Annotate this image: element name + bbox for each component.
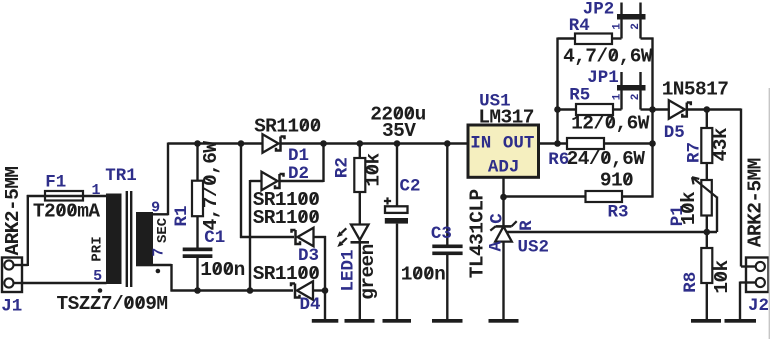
label D2 [288, 164, 309, 184]
jumper JP2 [617, 3, 646, 39]
label JP2 [583, 0, 615, 20]
svg-text:1: 1 [91, 182, 100, 199]
wire [641, 108, 653, 110]
svg-text:C2: C2 [399, 177, 420, 197]
svg-text:10k: 10k [362, 152, 384, 186]
wire AC1 drop [240, 143, 294, 239]
wire [396, 144, 398, 207]
wire pin7 [153, 264, 293, 292]
resistor R8 [701, 248, 712, 283]
wire AC1 top rail [168, 142, 263, 144]
label R6 [548, 150, 569, 170]
resistor R1 [192, 144, 203, 217]
label R5 [569, 86, 590, 106]
text PRI [89, 236, 105, 261]
svg-text:2: 2 [630, 23, 642, 30]
svg-text:C3: C3 [431, 224, 452, 244]
jumper JP1 [617, 72, 646, 110]
pin 1 of JP1 [611, 93, 623, 100]
svg-text:J1: J1 [1, 297, 22, 317]
wire pin9 [153, 143, 168, 216]
wire ref [507, 231, 717, 233]
svg-text:C: C [487, 213, 507, 224]
node [649, 106, 656, 113]
svg-text:JP2: JP2 [583, 0, 615, 20]
svg-text:R5: R5 [569, 86, 590, 106]
node C3 top [444, 140, 451, 147]
capacitor C1 [183, 248, 213, 259]
transformer TR1 secondary winding [136, 212, 153, 266]
svg-text:R3: R3 [607, 203, 628, 223]
node ADJ [500, 194, 507, 201]
svg-text:43k: 43k [710, 127, 732, 161]
resistor R7 [701, 110, 712, 164]
pin IN [470, 134, 491, 154]
svg-text:100n: 100n [401, 264, 445, 286]
resistor R2 [354, 144, 365, 193]
value 10k of P1 [678, 191, 700, 225]
node C2 top [394, 140, 401, 147]
svg-text:1: 1 [611, 93, 623, 100]
node [554, 106, 561, 113]
value ARK2-5MM of J1 [2, 167, 24, 256]
svg-text:100n: 100n [200, 259, 244, 281]
label TR1 [105, 166, 137, 186]
value 2200u 35V [370, 104, 426, 143]
phase dot secondary [156, 269, 161, 274]
svg-text:J2: J2 [748, 296, 769, 316]
svg-text:SR1100: SR1100 [253, 207, 320, 229]
diode D3 [292, 228, 327, 247]
wire [359, 240, 361, 319]
wire [446, 144, 448, 245]
value 10k of R8 [711, 259, 733, 293]
capacitor C2 [384, 197, 408, 223]
svg-text:SEC: SEC [155, 217, 171, 243]
svg-text:OUT: OUT [503, 134, 535, 154]
value SR1100 of D2 [253, 189, 320, 211]
diode D4 [291, 281, 326, 300]
svg-text:LM317: LM317 [478, 107, 534, 129]
ground C2 [383, 319, 412, 323]
svg-text:35V: 35V [382, 120, 416, 142]
pin ADJ [488, 158, 520, 178]
wire output drop [741, 109, 746, 267]
node bridge AC1 [238, 140, 245, 147]
pin OUT [503, 134, 535, 154]
svg-text:10k: 10k [711, 259, 733, 293]
svg-text:US2: US2 [517, 238, 549, 258]
node [247, 287, 254, 294]
label R3 [607, 203, 628, 223]
label LED1 [339, 249, 359, 291]
svg-text:JP1: JP1 [587, 68, 619, 88]
wire [359, 192, 361, 225]
value 1N5817 [662, 79, 729, 101]
text SEC [155, 217, 171, 243]
value 10k of R2 [362, 152, 384, 186]
potentiometer P1 [692, 177, 717, 232]
wire [196, 216, 198, 247]
node D2 out [320, 140, 327, 147]
wire [558, 37, 576, 39]
svg-text:24/0,6W: 24/0,6W [567, 148, 646, 170]
svg-text:12/0,6W: 12/0,6W [571, 113, 650, 135]
label J1 [1, 297, 22, 317]
transformer TR1 primary winding [106, 194, 122, 285]
wire [604, 142, 653, 144]
ground J2 [725, 319, 757, 323]
node [704, 106, 711, 113]
wire anode [502, 242, 504, 320]
svg-text:R7: R7 [684, 142, 704, 163]
diode D5 [669, 100, 691, 119]
connector J1 [2, 258, 22, 293]
svg-text:R: R [517, 220, 537, 231]
resistor R4 [575, 34, 612, 45]
label R2 [333, 157, 353, 178]
value 100n of C1 [200, 259, 244, 281]
svg-text:R8: R8 [681, 272, 701, 293]
node [649, 140, 656, 147]
svg-text:5: 5 [93, 268, 102, 285]
wire [22, 282, 107, 284]
pin 9 [151, 200, 160, 217]
label JP1 [587, 68, 619, 88]
wire [612, 37, 622, 39]
ground bridge [312, 319, 339, 323]
label C2 [399, 177, 420, 197]
value SR1100 of D1 [254, 115, 321, 137]
connector J2 [746, 258, 769, 293]
label R7 [684, 142, 704, 163]
value TL431CLP [466, 189, 488, 278]
resistor R3 [586, 191, 623, 202]
value 12/0,6W of R5 [571, 113, 650, 135]
svg-text:D5: D5 [664, 123, 685, 143]
value 910 [600, 170, 633, 192]
pin 7 [150, 248, 167, 257]
diode D2 [250, 172, 324, 191]
ground C3 [432, 319, 463, 323]
node [554, 140, 561, 147]
svg-text:1: 1 [611, 23, 623, 30]
svg-text:T200mA: T200mA [33, 201, 101, 223]
label R8 [681, 272, 701, 293]
wire [613, 108, 622, 110]
value ARK2-5MM of J2 [745, 158, 767, 247]
pin 1 [91, 182, 100, 199]
svg-text:R2: R2 [333, 157, 353, 178]
value 100n of C3 [401, 264, 445, 286]
pin 5 [93, 268, 102, 285]
svg-text:F1: F1 [45, 173, 66, 193]
value T200mA [33, 201, 101, 223]
pin 1 of JP2 [611, 23, 623, 30]
value 43k of R7 [710, 127, 732, 161]
svg-text:2: 2 [630, 94, 642, 101]
svg-text:C1: C1 [204, 228, 225, 248]
pin C [487, 213, 507, 224]
node R1 top [194, 140, 201, 147]
wire right rail [651, 38, 653, 198]
wire D3-D4-ground riser [324, 236, 326, 319]
ground US2 [489, 319, 519, 323]
node [194, 287, 201, 294]
wire [22, 195, 28, 266]
svg-text:ADJ: ADJ [488, 158, 520, 178]
wire OUT [539, 142, 568, 144]
wire DC+ top rail [281, 142, 468, 144]
svg-text:910: 910 [600, 170, 633, 192]
wire D2 drop [249, 180, 251, 292]
value LM317 [478, 107, 534, 129]
svg-text:ARK2-5MM: ARK2-5MM [2, 167, 24, 256]
value 4,7/0,6W of R1 [200, 141, 222, 231]
svg-text:ARK2-5MM: ARK2-5MM [745, 158, 767, 247]
pin 2 of JP1 [630, 94, 642, 101]
label F1 [45, 173, 66, 193]
transformer core [127, 191, 131, 287]
wire [27, 195, 107, 197]
wire [740, 282, 746, 320]
svg-text:PRI: PRI [89, 236, 105, 261]
pin R [517, 220, 537, 231]
pin A [486, 241, 506, 252]
regulator U1 LM317 [468, 125, 539, 177]
ground R8 [691, 319, 721, 323]
svg-text:R1: R1 [172, 205, 192, 226]
label C3 [431, 224, 452, 244]
wire [653, 108, 669, 110]
value SR1100 of D3 [253, 207, 320, 229]
wire [622, 195, 654, 197]
label R4 [569, 16, 590, 36]
node [704, 229, 711, 236]
node [322, 287, 329, 294]
node R2 top [357, 140, 364, 147]
svg-text:D4: D4 [299, 295, 320, 315]
wire [641, 37, 654, 39]
ground LED1 [345, 319, 375, 323]
svg-text:IN: IN [470, 134, 491, 154]
label US2 [517, 238, 549, 258]
label J2 [748, 296, 769, 316]
svg-text:4,7/0,6W: 4,7/0,6W [200, 141, 222, 231]
wire [558, 108, 577, 110]
wire left rail [556, 38, 558, 144]
phase dot primary [98, 288, 103, 293]
wire to R3 [504, 195, 586, 197]
label C1 [204, 228, 225, 248]
svg-text:LED1: LED1 [339, 249, 359, 291]
wire [706, 216, 708, 249]
diode D1 [263, 134, 285, 153]
label US1 [479, 92, 511, 112]
fuse F1 [45, 191, 83, 201]
wire [446, 255, 448, 319]
wire [706, 283, 708, 319]
wire ADJ [502, 177, 504, 225]
value SR1100 of D4 [253, 263, 320, 285]
label R1 [172, 205, 192, 226]
LED LED1 [337, 225, 369, 248]
wire [196, 258, 198, 291]
resistor R6 [567, 138, 604, 149]
label D1 [288, 146, 309, 166]
value TSZZ7/009M [56, 293, 167, 315]
value 4,7/0,6W of R4 [563, 46, 653, 68]
wire [396, 224, 398, 319]
label D4 [299, 295, 320, 315]
shunt regulator US2 TL431 [490, 221, 516, 241]
svg-text:1N5817: 1N5817 [662, 79, 729, 101]
wire [706, 163, 708, 180]
svg-text:4,7/0,6W: 4,7/0,6W [563, 46, 653, 68]
wire [686, 108, 741, 110]
label D5 [664, 123, 685, 143]
resistor R5 [576, 104, 613, 115]
label D3 [298, 246, 319, 266]
wire D2 riser [322, 144, 324, 183]
svg-text:SR1100: SR1100 [253, 263, 320, 285]
label P1 [668, 205, 688, 226]
svg-text:10k: 10k [678, 191, 700, 225]
value 24/0,6W of R6 [567, 148, 646, 170]
svg-text:TR1: TR1 [105, 166, 137, 186]
svg-text:7: 7 [150, 248, 167, 257]
capacitor C3 [432, 245, 462, 256]
pin 2 of JP2 [630, 23, 642, 30]
svg-text:TSZZ7/009M: TSZZ7/009M [56, 293, 167, 315]
value green [357, 244, 379, 300]
svg-text:TL431CLP: TL431CLP [466, 189, 488, 278]
